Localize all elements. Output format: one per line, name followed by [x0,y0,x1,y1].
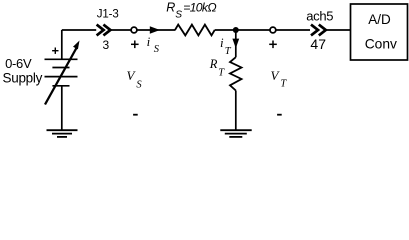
svg-text:47: 47 [310,36,326,52]
svg-text:S: S [154,44,160,55]
svg-text:T: T [225,46,232,57]
node terminal circle (left) [131,27,137,33]
minus sign VS [133,114,138,116]
svg-text:A/D: A/D [368,12,391,27]
svg-text:Conv: Conv [365,36,397,51]
A/D converter box U1 [351,4,408,60]
wire: battery bottom to ground [61,86,63,130]
wire: from RS to node circle 2 and ach5 connector [215,29,310,31]
wire: connector to A/D box [326,29,351,31]
svg-text:0-6V: 0-6V [5,56,32,71]
svg-text:S: S [136,79,142,90]
wire: battery top to main wire [61,30,63,59]
svg-text:S: S [175,10,182,21]
resistor RT zigzag [230,57,242,90]
minus sign VT [277,114,282,116]
wire: from connector to node circle and resistor RS [110,29,175,31]
svg-text:T: T [280,79,287,90]
svg-text:ach5: ach5 [306,9,333,24]
svg-text:3: 3 [102,38,109,52]
svg-text:V: V [271,68,281,83]
plus sign at right node [269,41,277,49]
svg-text:R: R [209,57,218,71]
resistor RS zigzag [175,25,215,36]
svg-text:Supply: Supply [3,70,43,85]
battery supply plates [45,59,78,86]
svg-text:T: T [218,67,225,78]
wire: main horizontal from battery to J1-3 connector [62,29,96,31]
junction dot at RT branch [233,27,239,33]
svg-text:V: V [127,68,137,83]
current arrow iS [150,26,160,33]
current arrow iT [232,39,239,49]
plus sign at battery [52,48,58,54]
label RS=10kOhm [166,1,216,21]
ground (under RT) [220,130,251,137]
svg-text:R: R [166,1,175,15]
plus sign at left node [131,41,139,49]
svg-text:i: i [220,35,224,50]
wire: junction down to RT [235,30,237,57]
svg-text:J1-3: J1-3 [97,9,119,21]
svg-text:=10kΩ: =10kΩ [183,1,216,15]
variable arrow through battery [45,47,77,105]
connector J1-3 chevrons [97,25,111,36]
connector ach5 chevrons [311,25,326,36]
ground (under battery) [47,130,78,137]
node terminal circle (right) [270,27,276,33]
svg-text:i: i [147,34,151,49]
wire: RT to ground [235,91,237,131]
